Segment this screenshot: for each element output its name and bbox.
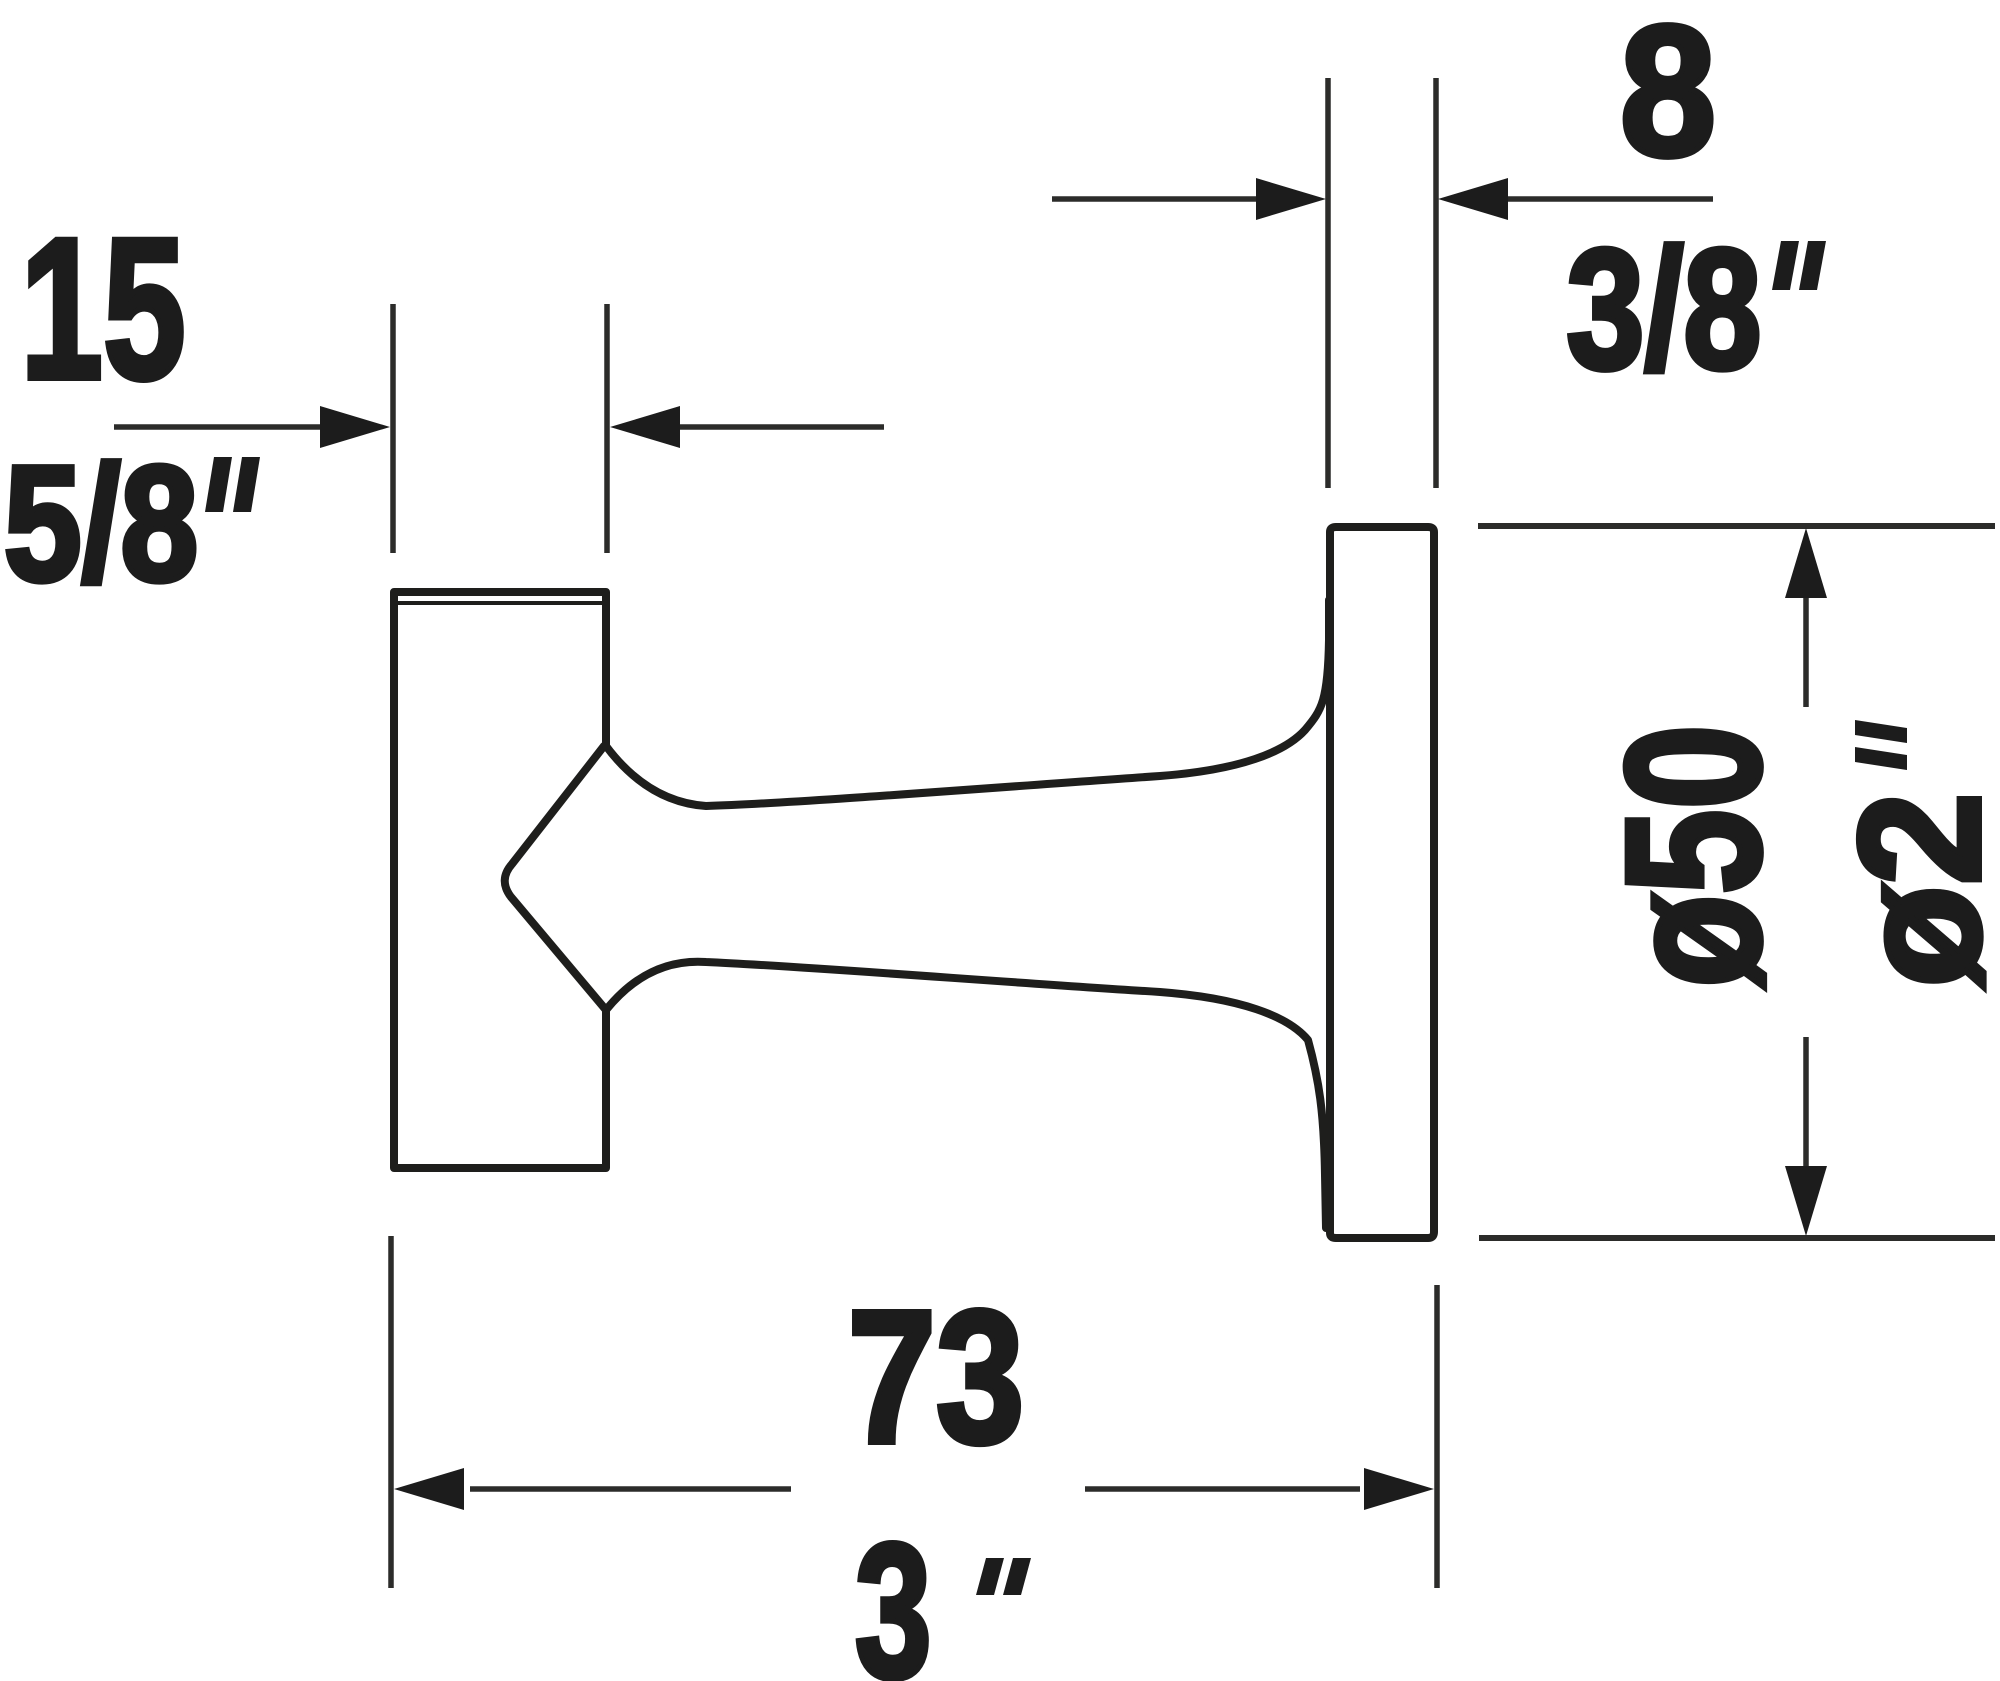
dim 73 right shaft bbox=[1085, 1486, 1360, 1492]
stem bottom profile with flare to wall plate bbox=[606, 962, 1326, 1228]
svg-text:73: 73 bbox=[848, 1271, 1025, 1482]
arrowhead dim 73 right, points right bbox=[1364, 1468, 1434, 1510]
arrowhead dim 15 left, points right bbox=[320, 406, 390, 448]
svg-text:8: 8 bbox=[1620, 0, 1716, 195]
knob face plate outline (left disc, edge view) bbox=[394, 592, 606, 1168]
extension line right of knob (dim 15) bbox=[604, 304, 610, 553]
svg-text:15: 15 bbox=[20, 197, 185, 421]
svg-text:ø50: ø50 bbox=[1586, 724, 1800, 987]
dia 50 top reference line bbox=[1478, 523, 1995, 529]
dia 50 vertical dim upper shaft bbox=[1803, 590, 1809, 707]
dia 50 vertical dim lower shaft bbox=[1803, 1037, 1809, 1175]
extension line below knob (dim 73) bbox=[388, 1236, 394, 1588]
inch marks for 3 label bbox=[976, 1558, 1031, 1595]
extension line left of wall plate (dim 8) bbox=[1325, 78, 1331, 488]
dim 15 right shaft bbox=[669, 424, 884, 430]
dim 73 left shaft bbox=[470, 1486, 791, 1492]
inch marks for 5/8 label bbox=[205, 457, 260, 512]
arrowhead dim 73 left, points left bbox=[394, 1468, 464, 1510]
extension line left of knob (dim 15) bbox=[390, 304, 396, 553]
dim 15 left shaft bbox=[114, 424, 330, 430]
inch marks for 3/8 label bbox=[1772, 241, 1826, 290]
arrowhead dim 15 right, points left bbox=[610, 406, 680, 448]
dim 8 right shaft bbox=[1497, 196, 1713, 202]
wall mounting plate (right disc, edge view) bbox=[1330, 527, 1434, 1238]
extension line below wall plate (dim 73) bbox=[1434, 1285, 1440, 1588]
arrowhead dia 50 top, points up bbox=[1785, 528, 1827, 598]
extension line right of wall plate (dim 8) bbox=[1433, 78, 1439, 488]
stem top profile with flare to wall plate bbox=[606, 600, 1329, 806]
dia 50 bottom reference line bbox=[1479, 1235, 1995, 1241]
arrowhead dim 8 left, points right bbox=[1256, 178, 1326, 220]
knob face inner bevel line bbox=[396, 601, 604, 605]
dim 8 left shaft bbox=[1052, 196, 1266, 202]
arrowhead dim 8 right, points left bbox=[1438, 178, 1508, 220]
inch marks for dia 2 label (rotated) bbox=[1855, 720, 1907, 770]
cone between knob and stem bbox=[505, 746, 606, 1010]
arrowhead dia 50 bottom, points down bbox=[1785, 1166, 1827, 1236]
